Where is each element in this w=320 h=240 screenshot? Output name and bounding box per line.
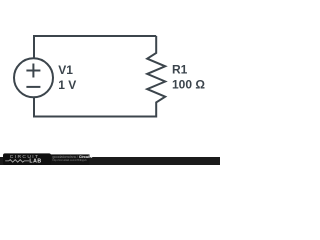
watermark logo resistor zigzag	[5, 160, 29, 163]
wire: bottom horizontal from V1 to R1	[34, 116, 156, 118]
watermark: CircuitLab logo box	[3, 153, 51, 165]
watermark: full-width black bar	[0, 157, 220, 165]
watermark: raised black background behind credit text	[50, 154, 90, 165]
voltage source V1: circle body	[14, 58, 53, 97]
wire: left vertical from V1 bottom terminal to bottom wire	[33, 97, 35, 118]
svg-text:LAB: LAB	[29, 159, 41, 165]
svg-text:100 Ω: 100 Ω	[172, 77, 205, 91]
watermark credit line 2: circuitlab url	[52, 158, 87, 162]
svg-text:R1: R1	[172, 62, 188, 76]
svg-text:1 V: 1 V	[58, 78, 76, 92]
voltage source V1: plus sign	[26, 64, 40, 78]
svg-text:http://circuitlab.com/c/54bjqv: http://circuitlab.com/c/54bjqvk	[52, 158, 87, 162]
wire: left vertical from top wire to V1 top terminal	[33, 35, 35, 59]
voltage source V1: minus sign	[26, 86, 40, 88]
svg-text:V1: V1	[58, 63, 73, 77]
svg-text:goodatomdrva / Circuit1: goodatomdrva / Circuit1	[52, 155, 92, 159]
resistor R1: top lead, zigzag body, bottom lead	[147, 36, 165, 118]
wire: top horizontal from V1 to R1	[34, 35, 156, 37]
watermark credit line 1: user / circuit name	[52, 155, 92, 159]
